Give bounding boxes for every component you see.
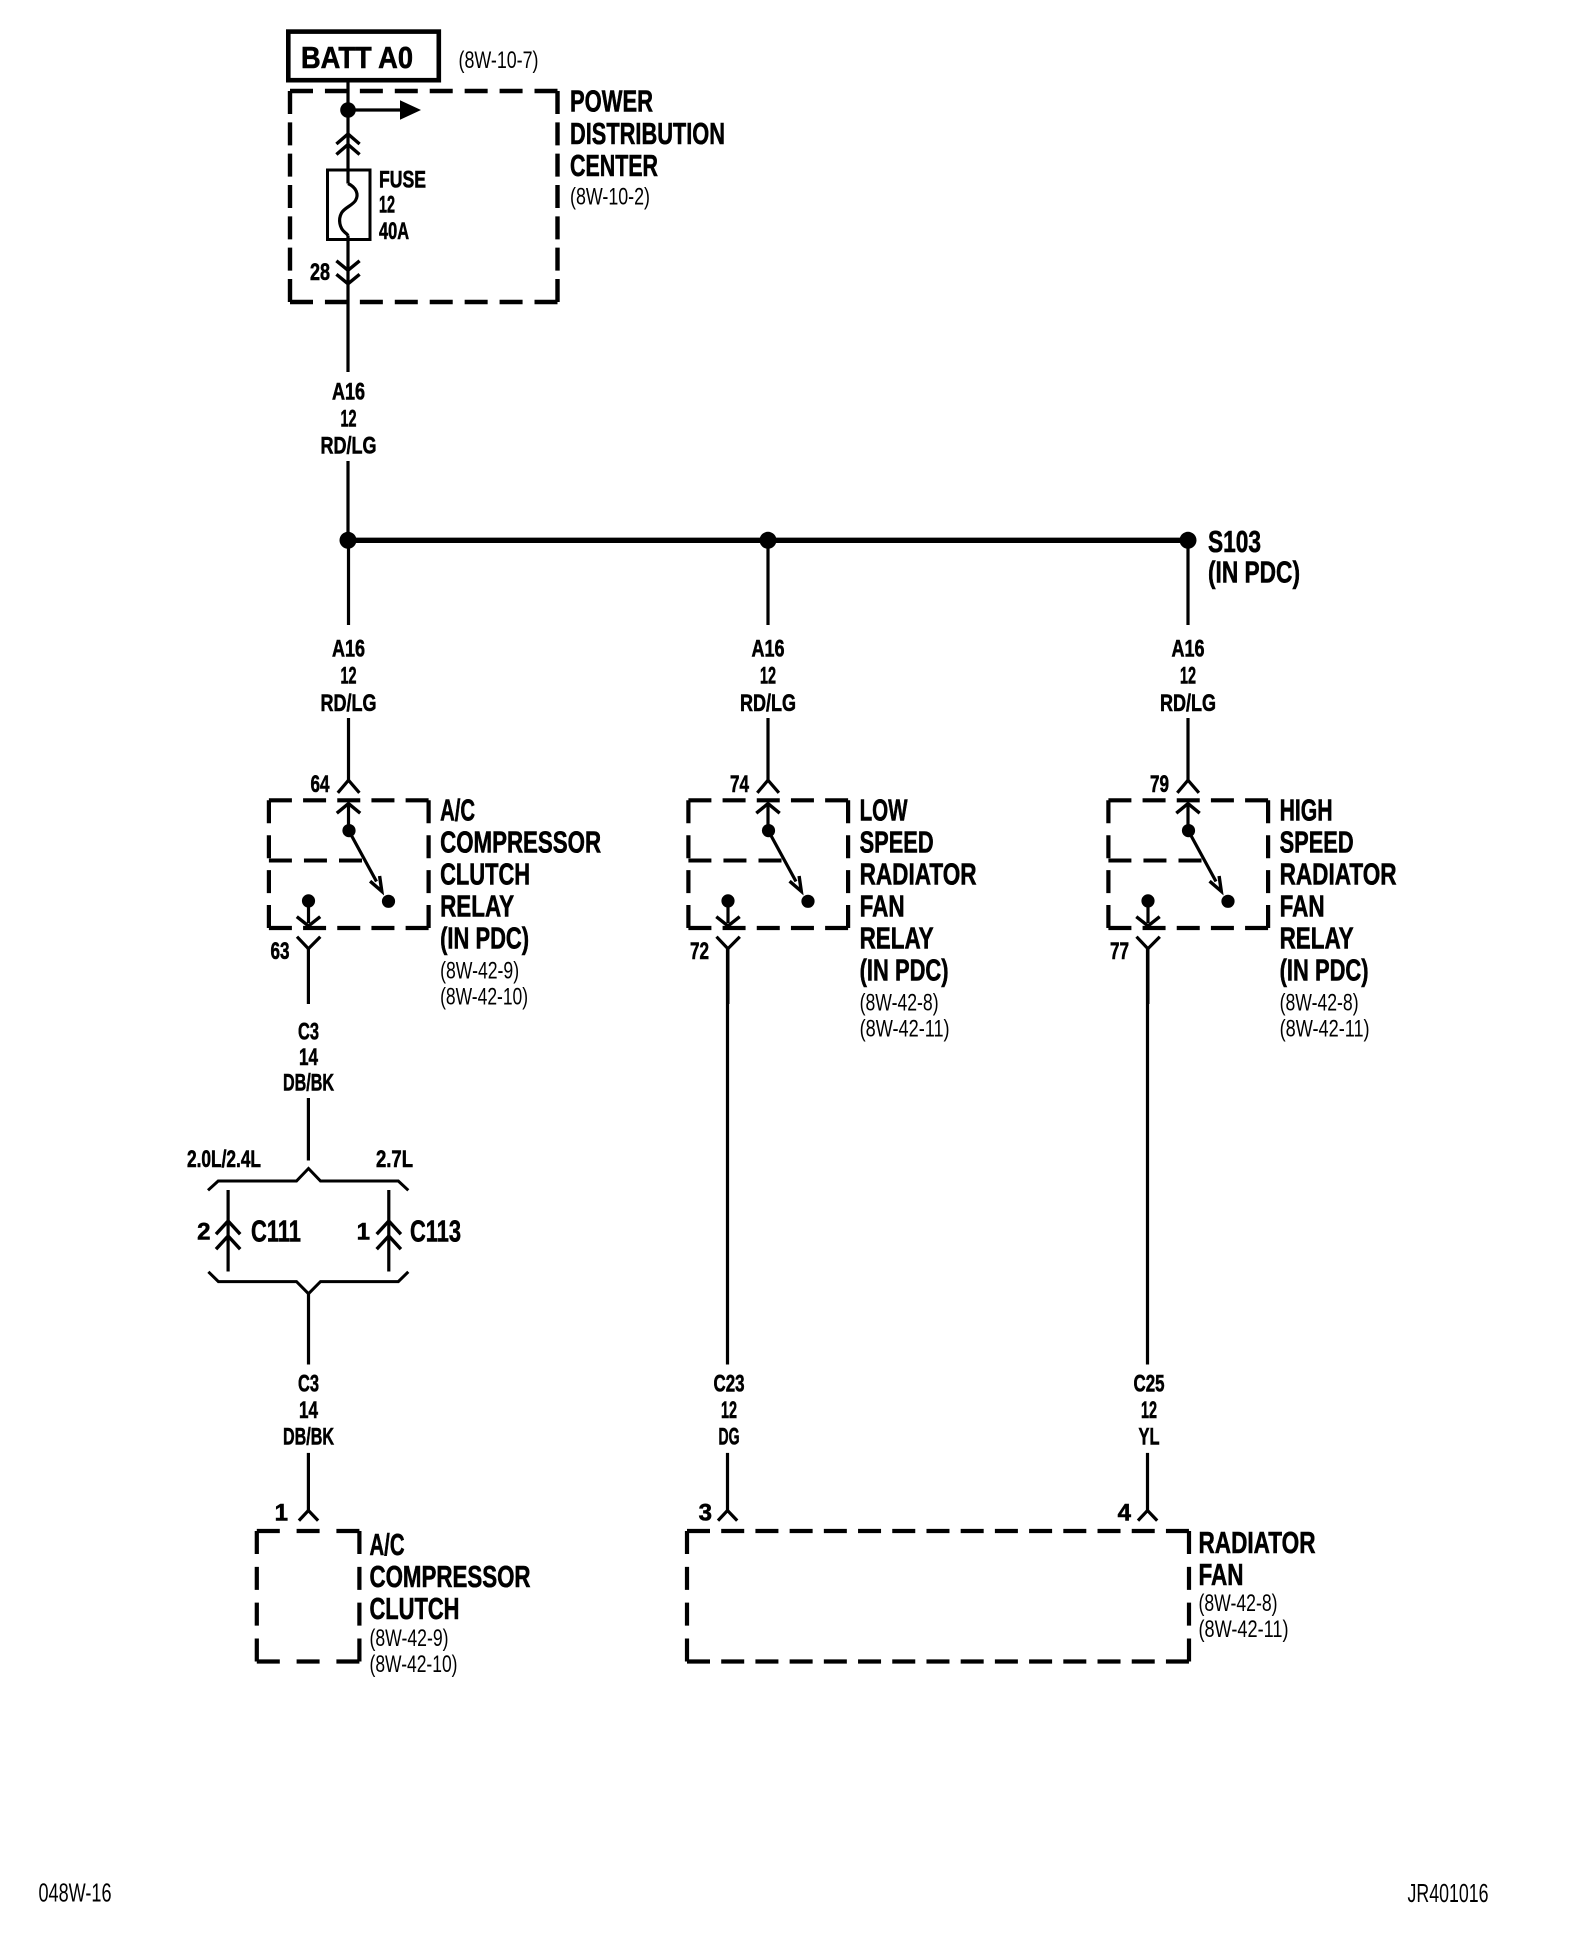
svg-text:40A: 40A <box>379 218 409 245</box>
low speed radiator fan relay switch blade <box>769 831 797 882</box>
svg-text:COMPRESSOR: COMPRESSOR <box>370 1559 531 1594</box>
junction dot in PDC <box>340 102 356 118</box>
high speed radiator fan relay box right edge <box>1266 800 1270 928</box>
svg-text:C3: C3 <box>298 1370 319 1397</box>
wire below low speed radiator fan relay <box>726 949 729 1004</box>
wire below A/C compressor clutch relay <box>307 949 310 1004</box>
svg-text:FUSE: FUSE <box>379 167 426 194</box>
wire A16 upper segment <box>346 302 349 372</box>
low speed radiator fan relay contact arrow up <box>756 804 779 814</box>
svg-text:RELAY: RELAY <box>440 889 514 924</box>
svg-text:(8W-42-10): (8W-42-10) <box>370 1651 458 1678</box>
svg-text:C111: C111 <box>251 1214 301 1249</box>
branch wire to relay pin <box>766 718 769 780</box>
svg-text:RD/LG: RD/LG <box>740 690 796 717</box>
branch wire to relay pin <box>1186 718 1189 780</box>
engine split brace top <box>208 1169 408 1191</box>
wire BATT A0 to junction <box>346 82 349 112</box>
A/C compressor clutch relay box top edge <box>269 798 429 802</box>
splice bus wire S103 <box>348 538 1188 543</box>
svg-text:(IN PDC): (IN PDC) <box>860 953 949 988</box>
svg-text:(8W-42-8): (8W-42-8) <box>1199 1590 1278 1617</box>
bus junction dot left <box>340 532 357 549</box>
svg-text:12: 12 <box>341 663 357 690</box>
A/C compressor clutch relay stationary contact dot <box>382 895 395 908</box>
svg-text:048W-16: 048W-16 <box>39 1878 112 1908</box>
high speed radiator fan relay switch blade <box>1189 831 1217 882</box>
A/C compressor clutch relay box left edge <box>267 800 271 928</box>
svg-text:12: 12 <box>341 406 357 433</box>
A/C compressor clutch relay box bottom edge <box>269 926 429 930</box>
svg-text:RD/LG: RD/LG <box>321 433 377 460</box>
svg-text:A16: A16 <box>332 379 365 406</box>
svg-text:LOW: LOW <box>860 793 908 828</box>
svg-text:FAN: FAN <box>1280 889 1325 924</box>
high speed radiator fan relay output contact dot <box>1141 894 1154 907</box>
wire C23 from low speed relay <box>726 949 729 1365</box>
wire C25 from high speed relay <box>1146 949 1149 1365</box>
svg-text:1: 1 <box>357 1219 370 1246</box>
svg-text:SPEED: SPEED <box>860 825 934 860</box>
connector C113 double chevron <box>377 1221 401 1234</box>
svg-text:RD/LG: RD/LG <box>1160 690 1216 717</box>
svg-text:SPEED: SPEED <box>1280 825 1354 860</box>
branch wire to relay pin <box>347 718 350 780</box>
engine split brace bottom <box>208 1272 408 1294</box>
power distribution center bottom edge <box>290 300 558 304</box>
high speed radiator fan relay pivot contact dot <box>1182 824 1195 837</box>
svg-text:(8W-42-10): (8W-42-10) <box>440 984 528 1011</box>
radiator fan right edge <box>1187 1531 1191 1662</box>
svg-text:(IN PDC): (IN PDC) <box>440 921 529 956</box>
svg-text:4: 4 <box>1118 1500 1132 1527</box>
high speed radiator fan relay output wire <box>1146 901 1149 923</box>
svg-text:C25: C25 <box>1134 1370 1165 1397</box>
double chevron up (bus bar tap) <box>336 134 359 144</box>
low speed radiator fan relay box left edge <box>686 800 690 928</box>
fuse FUSE 12 40A <box>328 170 371 240</box>
svg-text:DG: DG <box>719 1423 740 1450</box>
power distribution center top edge <box>290 89 558 93</box>
A/C compressor clutch relay wire to pivot <box>347 804 350 831</box>
low speed radiator fan relay pivot contact dot <box>762 824 775 837</box>
wire below engine split <box>307 1294 310 1365</box>
svg-text:RELAY: RELAY <box>1280 921 1354 956</box>
svg-text:2.0L/2.4L: 2.0L/2.4L <box>187 1146 261 1173</box>
radiator fan top edge <box>687 1529 1189 1533</box>
A/C compressor clutch bottom edge <box>257 1659 360 1663</box>
svg-text:1: 1 <box>275 1500 288 1527</box>
wire to A/C compressor clutch <box>307 1453 310 1511</box>
svg-text:(8W-42-8): (8W-42-8) <box>1280 990 1359 1017</box>
A/C compressor clutch relay contact arrow up <box>337 804 360 814</box>
svg-text:14: 14 <box>299 1397 318 1424</box>
svg-text:14: 14 <box>299 1044 318 1071</box>
wire A16 lower segment <box>346 461 349 540</box>
low speed radiator fan relay internal divider <box>688 859 781 863</box>
svg-text:CENTER: CENTER <box>570 148 658 183</box>
svg-text:12: 12 <box>760 663 776 690</box>
high speed radiator fan relay contact arrow up <box>1176 804 1199 814</box>
svg-text:(8W-10-7): (8W-10-7) <box>459 47 539 74</box>
svg-text:RELAY: RELAY <box>860 921 934 956</box>
pin 4 connector <box>1138 1511 1157 1521</box>
svg-text:A/C: A/C <box>440 793 475 828</box>
svg-text:C113: C113 <box>410 1214 461 1249</box>
svg-text:12: 12 <box>1141 1397 1157 1424</box>
svg-text:(8W-42-11): (8W-42-11) <box>860 1016 950 1043</box>
pin 3 connector <box>718 1511 737 1521</box>
svg-text:64: 64 <box>311 771 330 798</box>
branch wire from splice <box>347 540 350 625</box>
svg-text:RADIATOR: RADIATOR <box>1280 857 1397 892</box>
svg-text:(8W-42-11): (8W-42-11) <box>1280 1016 1370 1043</box>
splice dot S103 <box>1180 532 1197 549</box>
low speed radiator fan relay box bottom edge <box>688 926 848 930</box>
low speed radiator fan relay output contact dot <box>721 894 734 907</box>
branch wire 2.0L/2.4L <box>227 1190 230 1272</box>
A/C compressor clutch relay box right edge <box>427 800 431 928</box>
branch wire from splice <box>1186 540 1189 625</box>
svg-text:3: 3 <box>699 1500 712 1527</box>
high speed radiator fan relay box left edge <box>1106 800 1110 928</box>
svg-text:2: 2 <box>197 1219 210 1246</box>
A/C compressor clutch top edge <box>257 1529 360 1533</box>
svg-text:(IN PDC): (IN PDC) <box>1208 554 1300 589</box>
A/C compressor clutch right edge <box>357 1531 361 1662</box>
low speed radiator fan relay box right edge <box>846 800 850 928</box>
A/C compressor clutch relay output contact dot <box>302 894 315 907</box>
A/C compressor clutch relay switch blade <box>349 831 377 882</box>
svg-text:COMPRESSOR: COMPRESSOR <box>440 825 601 860</box>
svg-text:CLUTCH: CLUTCH <box>370 1591 460 1626</box>
svg-text:DB/BK: DB/BK <box>283 1423 334 1450</box>
radiator fan bottom edge <box>687 1659 1189 1663</box>
svg-text:(IN PDC): (IN PDC) <box>1280 953 1369 988</box>
svg-text:12: 12 <box>1180 663 1196 690</box>
wire fuse to pin 28 <box>346 236 349 303</box>
svg-text:HIGH: HIGH <box>1280 793 1333 828</box>
svg-text:A16: A16 <box>1172 636 1205 663</box>
power distribution center right edge <box>555 91 559 302</box>
svg-text:(8W-42-9): (8W-42-9) <box>370 1625 449 1652</box>
A/C compressor clutch relay internal divider <box>269 859 362 863</box>
svg-text:C3: C3 <box>298 1019 319 1046</box>
low speed radiator fan relay output arrow down <box>716 917 739 926</box>
low speed radiator fan relay box top edge <box>688 798 848 802</box>
double chevron down at pin 28 <box>336 261 359 271</box>
high speed radiator fan relay output arrow down <box>1136 917 1159 926</box>
high speed radiator fan relay stationary contact dot <box>1221 895 1234 908</box>
svg-text:2.7L: 2.7L <box>376 1146 413 1173</box>
A/C compressor clutch left edge <box>255 1531 259 1662</box>
svg-text:YL: YL <box>1139 1423 1160 1450</box>
svg-text:JR401016: JR401016 <box>1408 1878 1489 1908</box>
svg-text:C23: C23 <box>714 1370 745 1397</box>
wire below high speed radiator fan relay <box>1146 949 1149 1004</box>
radiator fan left edge <box>685 1531 689 1662</box>
battery feed connector box BATT A0 <box>288 32 439 81</box>
A/C compressor clutch relay output arrow down <box>297 917 320 926</box>
branch wire from splice <box>766 540 769 625</box>
wire to radiator fan pin 4 <box>1146 1453 1149 1511</box>
svg-text:POWER: POWER <box>570 84 653 119</box>
low speed radiator fan relay wire to pivot <box>766 804 769 831</box>
svg-text:72: 72 <box>690 938 709 965</box>
wire junction to fuse element <box>346 110 349 184</box>
svg-text:FAN: FAN <box>860 889 905 924</box>
svg-text:FAN: FAN <box>1199 1557 1244 1592</box>
svg-text:77: 77 <box>1110 938 1129 965</box>
svg-text:(8W-42-8): (8W-42-8) <box>860 990 939 1017</box>
A/C compressor clutch relay pivot contact dot <box>342 824 355 837</box>
svg-text:BATT A0: BATT A0 <box>301 40 413 75</box>
svg-text:A16: A16 <box>752 636 785 663</box>
svg-text:RD/LG: RD/LG <box>321 690 377 717</box>
branch wire 2.7L <box>387 1190 390 1272</box>
wire to radiator fan pin 3 <box>726 1453 729 1511</box>
arrow to other PDC circuits <box>354 108 402 111</box>
svg-text:63: 63 <box>271 938 290 965</box>
svg-text:RADIATOR: RADIATOR <box>1199 1525 1316 1560</box>
svg-text:28: 28 <box>310 259 330 286</box>
high speed radiator fan relay wire to pivot <box>1186 804 1189 831</box>
high speed radiator fan relay box top edge <box>1108 798 1268 802</box>
svg-text:74: 74 <box>730 771 749 798</box>
power distribution center left edge <box>288 91 292 302</box>
wire above engine split <box>307 1098 310 1161</box>
svg-text:A16: A16 <box>332 636 365 663</box>
high speed radiator fan relay box bottom edge <box>1108 926 1268 930</box>
svg-text:12: 12 <box>721 1397 737 1424</box>
high speed radiator fan relay internal divider <box>1108 859 1201 863</box>
svg-text:12: 12 <box>379 192 395 219</box>
svg-text:79: 79 <box>1150 771 1169 798</box>
svg-text:(8W-10-2): (8W-10-2) <box>570 184 650 211</box>
svg-text:DB/BK: DB/BK <box>283 1070 334 1097</box>
svg-text:DISTRIBUTION: DISTRIBUTION <box>570 116 725 151</box>
svg-text:RADIATOR: RADIATOR <box>860 857 977 892</box>
bus junction dot middle <box>760 532 777 549</box>
connector C111 double chevron <box>216 1221 240 1234</box>
low speed radiator fan relay stationary contact dot <box>801 895 814 908</box>
A/C compressor clutch relay output wire <box>307 901 310 923</box>
svg-text:(8W-42-9): (8W-42-9) <box>440 958 519 985</box>
pin 1 connector <box>299 1511 318 1521</box>
low speed radiator fan relay output wire <box>726 901 729 923</box>
svg-text:A/C: A/C <box>370 1527 405 1562</box>
svg-text:(8W-42-11): (8W-42-11) <box>1199 1616 1289 1643</box>
svg-text:CLUTCH: CLUTCH <box>440 857 530 892</box>
